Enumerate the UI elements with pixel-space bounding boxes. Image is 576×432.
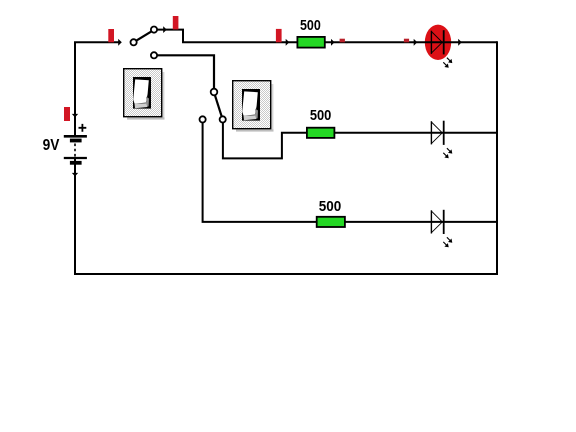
resistor R2 xyxy=(307,128,335,138)
current arrow xyxy=(458,39,462,46)
voltage marker xyxy=(64,107,70,121)
svg-text:500: 500 xyxy=(310,107,332,124)
LED D1 emission arrows xyxy=(443,58,452,68)
current arrow xyxy=(414,39,418,46)
svg-text:9V: 9V xyxy=(43,137,60,154)
wire xyxy=(74,273,498,275)
switch SW2 throw B contact xyxy=(220,116,226,122)
battery positive plate xyxy=(64,135,87,138)
toggle switch SW1 image xyxy=(124,69,165,120)
current arrow xyxy=(163,26,167,33)
resistor R3 xyxy=(317,217,345,227)
wire xyxy=(345,221,497,223)
LED D2 diode symbol xyxy=(431,121,443,145)
battery negative plate xyxy=(70,139,82,143)
switch SW1 blade xyxy=(136,31,151,40)
svg-text:500: 500 xyxy=(319,198,342,215)
switch SW2 throw A contact xyxy=(200,116,206,122)
wire xyxy=(203,123,317,222)
switch SW1 common contact xyxy=(131,39,137,45)
switch SW2 common contact xyxy=(211,89,218,96)
wire xyxy=(496,41,498,275)
resistor R1 xyxy=(297,37,324,48)
switch SW1 throw A contact xyxy=(151,27,157,33)
wire xyxy=(74,158,76,275)
battery positive plate cell 2 xyxy=(64,157,87,159)
current arrow xyxy=(286,39,290,46)
LED D2 emission arrows xyxy=(443,148,452,158)
svg-text:500: 500 xyxy=(300,17,321,34)
current arrow xyxy=(72,173,78,177)
wire xyxy=(157,30,297,43)
current arrow xyxy=(331,39,335,46)
battery plus sign xyxy=(79,124,87,132)
toggle switch SW2 image xyxy=(233,81,274,132)
current marker xyxy=(404,39,409,43)
current arrow xyxy=(72,114,78,118)
LED D3 emission arrows xyxy=(443,237,452,247)
voltage marker xyxy=(276,29,282,42)
wire xyxy=(75,42,119,137)
battery negative plate cell 2 xyxy=(70,161,82,165)
wire xyxy=(334,132,497,134)
wire xyxy=(325,41,497,43)
switch SW1 throw B contact xyxy=(151,52,157,58)
LED D1 lit red glow xyxy=(425,25,451,60)
current marker xyxy=(340,39,345,43)
voltage marker xyxy=(108,29,114,42)
battery BAT1 9V xyxy=(43,107,87,176)
LED D1 diode symbol xyxy=(431,30,443,54)
current arrow xyxy=(118,39,122,46)
wire xyxy=(157,55,214,88)
battery cell link dashed xyxy=(74,144,76,157)
LED D3 diode symbol xyxy=(431,210,443,234)
voltage marker xyxy=(173,16,179,29)
wire xyxy=(223,123,307,159)
switch SW2 blade xyxy=(215,95,222,116)
